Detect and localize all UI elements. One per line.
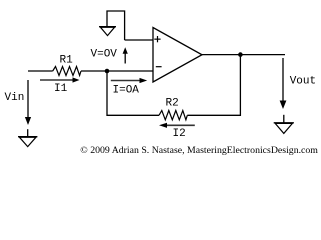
current arrow I=0A [111,78,147,97]
Vout label [290,76,316,88]
V=0V label [91,48,118,60]
copyright text [80,145,318,156]
svg-text:I=OA: I=OA [113,85,140,97]
Vin arrow [25,80,31,125]
svg-text:Vout: Vout [290,76,316,88]
ground top [99,27,116,36]
Vout arrow [280,58,287,109]
svg-text:V=OV: V=OV [91,48,118,60]
Vin label [5,92,25,104]
svg-text:R1: R1 [60,55,74,67]
ground left [18,129,37,146]
resistor R2 [159,98,187,120]
wire non-inverting input [125,39,153,41]
svg-text:R2: R2 [166,98,179,110]
svg-text:© 2009 Adrian S. Nastase, Mast: © 2009 Adrian S. Nastase, MasteringElect… [80,145,318,156]
svg-text:Vin: Vin [5,92,25,104]
svg-text:I2: I2 [173,128,186,140]
op-amp U1 [153,28,202,83]
wire feedback down from node A [107,71,159,115]
wire R1 to inverting input [81,70,153,72]
ground right [274,115,294,134]
resistor R1 [53,55,81,76]
wire to top ground [107,11,125,40]
svg-text:I1: I1 [54,83,68,95]
current arrow I2 [159,123,195,140]
wire input left segment [28,70,53,72]
V=0V arrow [123,47,128,63]
node A junction dot [105,69,110,74]
output node junction dot [238,52,243,57]
current arrow I1 [40,77,80,95]
wire R2 to output node [187,55,240,116]
wire output [202,54,285,56]
